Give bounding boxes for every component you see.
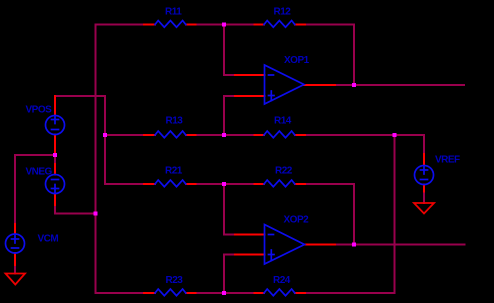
wire XOP1 inverting input stub bbox=[224, 74, 235, 76]
svg-text:R21: R21 bbox=[165, 166, 183, 177]
svg-text:XOP1: XOP1 bbox=[284, 55, 310, 66]
resistor R21 bbox=[155, 180, 186, 187]
pin R14 right lead bbox=[295, 134, 305, 136]
wire XOP2 output run y=244.5 bbox=[335, 244, 465, 246]
svg-text:R14: R14 bbox=[274, 116, 292, 127]
wire R22 right segment to corner bbox=[305, 183, 354, 185]
pin XOP1 noninverting input lead bbox=[235, 95, 265, 97]
resistor R22 bbox=[264, 180, 295, 187]
pin R24 right lead bbox=[295, 292, 305, 294]
pin VREF top lead bbox=[423, 154, 425, 166]
wire XOP2 inverting input riser x=224 bbox=[223, 184, 225, 235]
op-amp U1 XOP1 bbox=[265, 65, 305, 104]
pin R14 left lead bbox=[255, 134, 265, 136]
pin VNEG bottom lead bbox=[54, 194, 56, 206]
wire net VIP vertical x=95.5 (R11 left down to R23 left) bbox=[95, 25, 97, 294]
pin XOP1 inverting input lead bbox=[235, 74, 265, 76]
pin R21 right lead bbox=[186, 183, 196, 185]
pin XOP2 output lead bbox=[305, 244, 336, 246]
op-amp U2 XOP2 bbox=[265, 225, 305, 265]
resistor R24 bbox=[264, 289, 295, 296]
node junction R21-R22 bbox=[222, 182, 226, 186]
wire XOP2 inverting input stub bbox=[224, 234, 235, 236]
node junction R11-R12 bbox=[222, 23, 226, 27]
pin VPOS top lead bbox=[54, 96, 56, 116]
source VPOS bbox=[46, 116, 65, 135]
node junction R13 left bbox=[103, 133, 107, 137]
wire R21-R22 middle segment y=184 bbox=[196, 183, 255, 185]
wire XOP1 output run y=85 bbox=[335, 84, 464, 86]
svg-text:R24: R24 bbox=[273, 275, 291, 286]
resistor R14 bbox=[264, 131, 295, 138]
wire VREF ground segment x=424 bbox=[423, 192, 425, 204]
pin VCM top lead bbox=[14, 224, 16, 234]
node junction R14 right bbox=[393, 133, 397, 137]
pin XOP1 output lead bbox=[304, 84, 335, 86]
pin VCM bottom lead bbox=[14, 253, 16, 265]
wire vertical x=105 VPOS to R13/R21 bbox=[104, 96, 106, 184]
pin R22 right lead bbox=[295, 183, 305, 185]
pin R23 left lead bbox=[144, 292, 155, 294]
source VCM bbox=[6, 234, 25, 253]
wire XOP2 noninverting input riser x=224 bbox=[223, 255, 225, 294]
pin VREF bottom lead bbox=[423, 185, 425, 192]
node junction VPOS-VNEG-VCM bbox=[53, 153, 57, 157]
svg-text:VREF: VREF bbox=[435, 155, 460, 166]
wire R11-R12 middle segment y=24.5 bbox=[196, 24, 255, 26]
resistor R13 bbox=[155, 131, 186, 138]
wire XOP1 noninverting input stub bbox=[224, 95, 235, 97]
pin R12 right lead bbox=[295, 24, 305, 26]
node junction XOP2 output bbox=[352, 243, 356, 247]
resistor R23 bbox=[155, 289, 186, 296]
wire XOP2 noninverting input stub bbox=[224, 254, 235, 256]
wire R23-R24 middle segment y=293 bbox=[196, 292, 255, 294]
svg-text:R12: R12 bbox=[274, 7, 292, 18]
node junction R13-R14 bbox=[222, 133, 226, 137]
wire R13-R14 middle segment y=135 bbox=[196, 134, 255, 136]
svg-text:VPOS: VPOS bbox=[26, 105, 53, 116]
resistor R11 bbox=[155, 21, 186, 28]
wire R21 row left segment bbox=[105, 183, 144, 185]
wire R12 right segment to corner bbox=[305, 24, 354, 26]
resistor R12 bbox=[264, 21, 295, 28]
svg-text:VCM: VCM bbox=[38, 234, 59, 245]
wire VREF top lead upper part x=424 bbox=[423, 135, 425, 154]
pin R12 left lead bbox=[255, 24, 265, 26]
pin R11 left lead bbox=[144, 24, 155, 26]
ground below VCM bbox=[6, 274, 26, 285]
wire VCM top run y=155 bbox=[15, 154, 55, 156]
source VNEG bbox=[46, 175, 65, 194]
wire R13 row left segment bbox=[105, 134, 144, 136]
node junction R23-R24 bbox=[222, 291, 226, 295]
wire VPOS top run y=96 bbox=[55, 95, 105, 97]
pin R13 right lead bbox=[186, 134, 196, 136]
wire R24 right segment to corner bbox=[305, 292, 395, 294]
wire VNEG bottom run y=213.5 bbox=[55, 213, 96, 215]
node junction XOP1 output bbox=[352, 83, 356, 87]
wire VNEG bottom segment x=55 bbox=[54, 205, 56, 214]
pin XOP2 noninverting input lead bbox=[235, 254, 265, 256]
wire R11 row left segment bbox=[96, 24, 145, 26]
wire VCM ground segment x=15 bbox=[14, 265, 16, 274]
svg-text:R22: R22 bbox=[275, 166, 293, 177]
wire R22 feedback vertical x=354 bbox=[353, 184, 355, 245]
pin VPOS bottom lead bbox=[54, 135, 56, 156]
pin R21 left lead bbox=[144, 183, 155, 185]
wire R12 feedback vertical x=354 bbox=[353, 25, 355, 86]
wire feedback vertical x=394.5 R14 to R24 bbox=[394, 135, 396, 293]
pin R13 left lead bbox=[144, 134, 155, 136]
wire R14 right segment to VREF corner bbox=[305, 134, 424, 136]
wire VCM vertical x=15 bbox=[14, 155, 16, 224]
source VREF bbox=[415, 166, 434, 185]
pin R22 left lead bbox=[255, 183, 265, 185]
pin R11 right lead bbox=[186, 24, 196, 26]
ground below VREF bbox=[414, 203, 434, 214]
svg-text:R23: R23 bbox=[166, 275, 184, 286]
pin R23 right lead bbox=[186, 292, 196, 294]
wire XOP1 inverting input riser x=224 bbox=[223, 25, 225, 76]
pin VNEG top lead bbox=[54, 164, 56, 175]
svg-text:XOP2: XOP2 bbox=[284, 215, 310, 226]
wire VNEG top short segment x=55 bbox=[54, 155, 56, 164]
svg-text:R13: R13 bbox=[166, 116, 184, 127]
node junction VNEG return bbox=[94, 212, 98, 216]
svg-text:R11: R11 bbox=[165, 7, 182, 18]
wire R23 row left segment bbox=[96, 292, 145, 294]
pin XOP2 inverting input lead bbox=[235, 234, 265, 236]
pin R24 left lead bbox=[255, 292, 265, 294]
svg-text:VNEG: VNEG bbox=[26, 167, 53, 178]
wire XOP1 noninverting input riser x=224 bbox=[223, 96, 225, 135]
